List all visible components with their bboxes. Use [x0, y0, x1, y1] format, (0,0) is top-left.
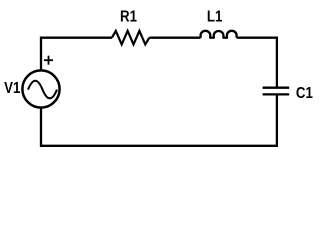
- resistor R1: [112, 31, 149, 45]
- plus polarity mark: [44, 56, 53, 65]
- svg-text:C1: C1: [296, 85, 313, 102]
- sine wave inside V1: [28, 81, 57, 99]
- svg-text:L1: L1: [207, 9, 222, 26]
- svg-text:R1: R1: [120, 9, 137, 26]
- wire: V1 top lead to R1 left (with top-left corner): [41, 38, 112, 71]
- voltage source V1 (AC source circle): [22, 70, 59, 107]
- capacitor C1: [263, 88, 290, 95]
- wire: L1 right to C1 top plate (with top-right corner): [237, 38, 277, 88]
- svg-text:V1: V1: [4, 80, 20, 97]
- wire: C1 bottom lead, bottom return to V1 (with both bottom corners): [41, 94, 277, 145]
- wire: R1 right to L1 left: [149, 37, 200, 39]
- inductor L1: [201, 31, 237, 38]
